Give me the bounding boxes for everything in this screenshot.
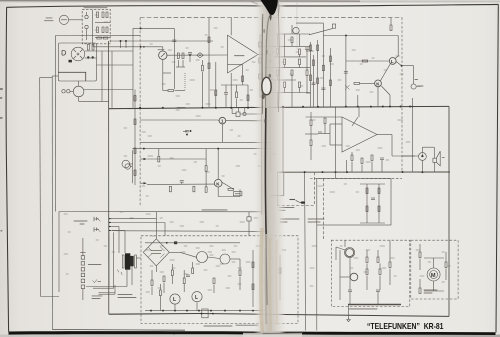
svg-text:L: L: [391, 59, 394, 64]
svg-text:L: L: [195, 295, 198, 301]
svg-text:“TELEFUNKEN” KR-81: “TELEFUNKEN” KR-81: [367, 321, 444, 331]
svg-text:M: M: [431, 273, 436, 279]
svg-text:L: L: [173, 297, 176, 303]
